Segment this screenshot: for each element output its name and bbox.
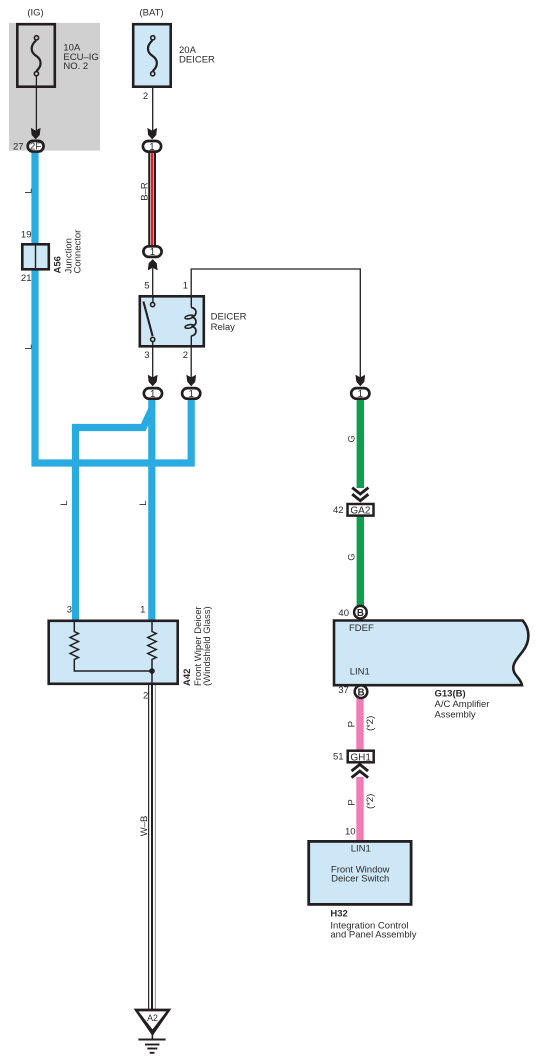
svg-text:GH1: GH1 (350, 752, 371, 763)
svg-text:P: P (347, 721, 358, 727)
svg-text:H32: H32 (330, 909, 347, 920)
svg-text:2F: 2F (30, 142, 41, 153)
svg-text:42: 42 (333, 505, 344, 516)
svg-text:Assembly: Assembly (435, 709, 476, 720)
svg-text:A42: A42 (182, 669, 193, 686)
svg-text:L: L (24, 344, 35, 349)
svg-text:5: 5 (144, 280, 149, 291)
svg-text:1: 1 (150, 247, 155, 258)
svg-text:2: 2 (143, 91, 148, 102)
svg-text:1: 1 (140, 605, 145, 616)
svg-text:2: 2 (143, 691, 148, 702)
svg-text:B: B (357, 608, 364, 619)
svg-text:(IG): (IG) (27, 7, 43, 18)
svg-text:Relay: Relay (211, 322, 236, 333)
svg-text:G: G (347, 435, 358, 442)
svg-text:27: 27 (13, 141, 24, 152)
svg-text:W–B: W–B (139, 816, 150, 837)
svg-text:(Windshield Glass): (Windshield Glass) (202, 606, 213, 686)
svg-text:FDEF: FDEF (349, 623, 374, 634)
svg-text:G: G (347, 553, 358, 560)
svg-text:37: 37 (338, 685, 349, 696)
svg-text:Connector: Connector (73, 230, 84, 274)
svg-text:L: L (24, 188, 35, 193)
svg-text:21: 21 (21, 273, 32, 284)
svg-text:NO. 2: NO. 2 (63, 61, 88, 72)
svg-text:GA2: GA2 (350, 506, 370, 517)
svg-text:1: 1 (149, 142, 154, 153)
svg-text:A2: A2 (147, 1013, 158, 1023)
svg-text:(*2): (*2) (365, 716, 376, 731)
svg-text:LIN1: LIN1 (350, 666, 370, 677)
svg-text:(BAT): (BAT) (139, 7, 163, 18)
svg-text:A56: A56 (52, 256, 63, 273)
svg-text:3: 3 (144, 350, 149, 361)
svg-text:(*2): (*2) (365, 794, 376, 809)
svg-text:LIN1: LIN1 (351, 843, 371, 854)
svg-text:DEICER: DEICER (179, 54, 215, 65)
svg-text:and Panel Assembly: and Panel Assembly (330, 930, 416, 941)
svg-text:19: 19 (21, 229, 32, 240)
svg-text:3: 3 (67, 605, 72, 616)
svg-text:40: 40 (338, 608, 349, 619)
svg-text:P: P (347, 799, 358, 805)
svg-text:2: 2 (183, 350, 188, 361)
svg-text:1: 1 (183, 280, 188, 291)
svg-text:51: 51 (333, 752, 344, 763)
svg-text:G13(B): G13(B) (435, 689, 466, 700)
svg-text:1: 1 (150, 389, 155, 400)
svg-text:1: 1 (358, 389, 363, 400)
svg-text:B–R: B–R (139, 182, 150, 201)
svg-text:L: L (138, 500, 149, 505)
svg-text:1: 1 (188, 389, 193, 400)
svg-text:10: 10 (345, 827, 356, 838)
svg-text:L: L (59, 500, 70, 505)
svg-text:Deicer Switch: Deicer Switch (331, 874, 389, 885)
svg-text:B: B (357, 687, 364, 698)
